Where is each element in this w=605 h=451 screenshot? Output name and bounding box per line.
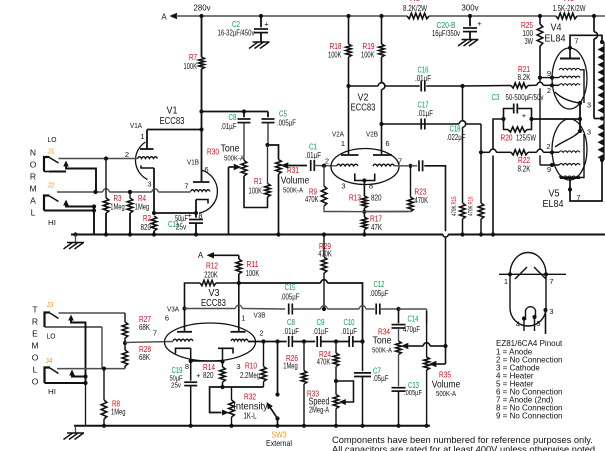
svg-text:.005µF: .005µF — [277, 119, 296, 128]
capacitor C11 — [168, 211, 203, 235]
svg-text:All capacitors are rated for a: All capacitors are rated for at least 40… — [332, 445, 598, 451]
svg-text:470K: 470K — [451, 205, 458, 216]
svg-text:2: 2 — [125, 150, 129, 159]
capacitor C8 tremolo — [283, 318, 299, 347]
svg-text:1: 1 — [504, 277, 508, 286]
wire V1 plate node — [199, 109, 203, 182]
capacitor C19 — [170, 361, 202, 426]
svg-text:8.2K: 8.2K — [518, 73, 531, 82]
svg-text:R6: R6 — [564, 0, 575, 3]
wire J3 tip — [59, 313, 126, 322]
svg-text:500K-A: 500K-A — [283, 188, 303, 195]
svg-text:.005µF: .005µF — [281, 293, 300, 302]
resistor R28 — [122, 343, 151, 369]
wire ground bus — [71, 235, 605, 238]
wire C16 coupling — [346, 83, 419, 88]
resistor R3 — [103, 156, 125, 234]
svg-text:+: + — [522, 111, 527, 120]
svg-text:500K-A: 500K-A — [436, 391, 456, 398]
resistor R22 — [511, 149, 559, 173]
capacitor C20-B — [432, 14, 482, 39]
svg-text:ECC83: ECC83 — [160, 115, 185, 127]
svg-text:+: + — [196, 371, 201, 380]
svg-text:470K: 470K — [468, 205, 475, 216]
svg-text:EL84: EL84 — [543, 198, 564, 210]
capacitor C17 — [417, 101, 433, 130]
capacitor C14 — [392, 309, 421, 341]
svg-text:9 = No Connection: 9 = No Connection — [496, 412, 563, 421]
capacitor C15 — [281, 283, 300, 315]
svg-text:125/5W: 125/5W — [516, 134, 536, 143]
capacitor C16 — [415, 66, 431, 92]
label 280v — [194, 4, 211, 13]
cathode V4 — [555, 70, 591, 110]
potentiometer R34 Tone — [372, 328, 446, 355]
svg-text:C8: C8 — [229, 113, 237, 122]
svg-text:3: 3 — [549, 307, 553, 316]
label NORMAL — [29, 148, 36, 218]
anode V4 pin 7 — [560, 35, 602, 58]
resistor R19 — [361, 16, 385, 124]
svg-text:7: 7 — [153, 329, 157, 338]
svg-text:A: A — [198, 251, 204, 260]
wire V3A plate — [185, 305, 286, 309]
svg-text:470K: 470K — [305, 195, 319, 204]
resistor R24 — [317, 342, 339, 384]
svg-text:25v: 25v — [176, 223, 187, 232]
svg-text:500K-A: 500K-A — [224, 156, 244, 163]
label J2 HI — [48, 181, 57, 228]
wire R18 R19 from rail — [346, 14, 383, 18]
capacitor C2 — [218, 14, 270, 42]
svg-text:3: 3 — [236, 362, 240, 371]
svg-text:8.2K: 8.2K — [518, 165, 531, 174]
svg-text:C12: C12 — [374, 280, 385, 289]
svg-text:LO: LO — [47, 332, 56, 341]
svg-text:.01µF: .01µF — [415, 74, 431, 83]
cathode V5 — [555, 128, 591, 148]
wire J3 sleeve — [45, 327, 103, 369]
jack J1 — [44, 157, 59, 172]
svg-text:R5: R5 — [410, 0, 421, 3]
wire V4 cathode to bias — [578, 103, 582, 131]
svg-text:R12: R12 — [206, 262, 218, 271]
wire C3 to ground — [493, 119, 504, 235]
capacitor C13 — [392, 355, 423, 426]
capacitor C5 — [262, 110, 297, 146]
wire C17 coupling — [379, 121, 481, 126]
svg-text:280v: 280v — [194, 4, 211, 13]
svg-text:R20: R20 — [501, 134, 513, 143]
resistor R10 — [240, 339, 266, 387]
svg-text:1: 1 — [341, 139, 345, 148]
svg-text:68K: 68K — [139, 323, 150, 332]
grids V5 — [546, 134, 584, 178]
triode V3A — [153, 305, 193, 364]
wire C3 to cathodes — [532, 118, 581, 120]
svg-text:6: 6 — [385, 139, 389, 148]
wire C15 to C12 — [292, 306, 374, 309]
switch contact J3 — [68, 315, 85, 384]
svg-text:2Meg-A: 2Meg-A — [309, 406, 329, 415]
svg-text:220K: 220K — [204, 271, 218, 280]
resistor R8 — [101, 369, 126, 426]
capacitor C3 — [492, 93, 544, 120]
ground for C20-B — [458, 40, 479, 47]
svg-text:.005µF: .005µF — [404, 388, 422, 397]
wire osc to plate feed — [353, 339, 365, 343]
resistor R9 — [305, 164, 340, 212]
label LO J1 — [48, 135, 57, 156]
triode V2A — [325, 86, 359, 166]
svg-text:C8: C8 — [287, 318, 295, 327]
grids V4 — [540, 68, 580, 95]
svg-text:.01µF: .01µF — [221, 122, 237, 131]
wire plate to caps — [202, 111, 269, 113]
svg-text:T: T — [32, 305, 37, 315]
switch contact J2 — [44, 200, 96, 235]
svg-text:N: N — [30, 148, 36, 158]
svg-text:ECC83: ECC83 — [351, 102, 376, 114]
wire V3B grid — [248, 339, 287, 343]
svg-text:1Meg: 1Meg — [111, 408, 126, 417]
svg-text:+: + — [264, 20, 269, 29]
svg-text:R13: R13 — [349, 194, 361, 203]
svg-text:L: L — [31, 208, 36, 218]
tube V3 envelope — [165, 323, 256, 361]
svg-text:100K: 100K — [361, 51, 375, 60]
svg-text:8: 8 — [185, 362, 189, 371]
tremolo bus dots — [102, 424, 429, 428]
svg-text:300v: 300v — [462, 4, 479, 13]
cathode V2 — [341, 174, 374, 191]
svg-text:O: O — [32, 377, 39, 387]
svg-text:1K-L: 1K-L — [244, 412, 257, 421]
svg-text:1Meg: 1Meg — [135, 203, 150, 212]
svg-text:R11: R11 — [247, 260, 259, 269]
svg-text:R7: R7 — [189, 53, 197, 62]
node A supply arrow — [161, 13, 201, 22]
wire V3B plate feed — [239, 280, 363, 342]
resistor R17 — [362, 212, 383, 235]
svg-text:R10: R10 — [245, 362, 257, 371]
svg-text:L: L — [33, 365, 38, 375]
resistor R29 — [318, 235, 332, 312]
wire B+ rail — [202, 15, 605, 17]
capacitor C7 — [354, 339, 389, 425]
wire C18 to tremolo volume — [424, 166, 445, 346]
svg-text:7: 7 — [574, 37, 578, 46]
resistor R11 — [236, 255, 260, 285]
svg-text:C14: C14 — [408, 315, 419, 324]
svg-text:7: 7 — [549, 277, 553, 286]
wire osc node2 — [321, 339, 349, 343]
svg-text:1Meg: 1Meg — [283, 362, 298, 371]
svg-text:16µF/350v: 16µF/350v — [432, 29, 460, 38]
wire cathode network — [223, 386, 264, 388]
ground for C2 — [249, 42, 270, 49]
svg-text:V2A: V2A — [332, 130, 344, 139]
svg-text:3W: 3W — [525, 37, 534, 46]
jack J2 — [44, 196, 59, 211]
wire J2 tip grid — [57, 189, 191, 194]
svg-text:J4: J4 — [46, 356, 53, 365]
wire J1 tip — [59, 158, 138, 160]
capacitor C1 — [305, 143, 337, 172]
wire B+ to center tap — [592, 14, 602, 119]
jack J3 — [45, 313, 59, 328]
svg-text:47K: 47K — [371, 223, 382, 232]
svg-text:3: 3 — [587, 101, 591, 110]
svg-text:R15: R15 — [451, 196, 458, 204]
node V2 tail — [340, 210, 408, 214]
svg-text:820: 820 — [371, 194, 382, 203]
svg-text:E: E — [32, 329, 38, 339]
tube V2 envelope — [331, 149, 399, 185]
svg-text:50-500µF/50v: 50-500µF/50v — [506, 93, 544, 102]
tube EZ81 pinout symbol — [499, 253, 566, 335]
wire C12 to tone — [380, 307, 427, 323]
node A feed tremolo — [198, 251, 239, 260]
svg-text:HI: HI — [48, 218, 56, 227]
svg-text:EL84: EL84 — [545, 33, 566, 45]
svg-text:.01µF: .01µF — [417, 109, 433, 118]
resistor R16 — [468, 124, 484, 235]
tube V3 label — [201, 287, 226, 309]
screen feed V5 — [540, 78, 559, 165]
svg-text:O: O — [32, 353, 39, 363]
switch contact J1 — [49, 161, 96, 193]
svg-text:2: 2 — [325, 157, 329, 166]
svg-text:25v: 25v — [171, 381, 181, 390]
resistor R18 — [328, 16, 351, 86]
resistor R12 — [182, 262, 238, 311]
svg-text:V1A: V1A — [130, 121, 142, 130]
tube V2 label — [351, 92, 376, 114]
resistor R13 — [349, 181, 382, 212]
resistor R20 — [501, 117, 537, 143]
svg-text:2.2Meg: 2.2Meg — [240, 371, 260, 380]
resistor R14 — [203, 361, 225, 389]
resistor R26 — [283, 342, 307, 426]
svg-text:C3: C3 — [492, 93, 500, 102]
svg-text:R2: R2 — [143, 214, 151, 223]
svg-text:+: + — [187, 211, 192, 220]
svg-text:16-32µF/450v: 16-32µF/450v — [218, 29, 255, 38]
svg-text:100K: 100K — [184, 62, 198, 71]
triode V1A — [125, 121, 158, 213]
svg-text:100K: 100K — [328, 51, 342, 60]
svg-text:External: External — [266, 439, 292, 448]
tube V5 label — [543, 188, 564, 211]
svg-text:500K-A: 500K-A — [372, 348, 392, 355]
svg-text:.01µF: .01µF — [313, 327, 329, 336]
svg-text:Tone: Tone — [221, 143, 240, 155]
svg-text:100K: 100K — [246, 269, 260, 278]
text component note — [332, 435, 598, 451]
svg-text:O: O — [30, 160, 37, 170]
wire J4 tip — [57, 367, 125, 371]
potentiometer R32 Intensity — [210, 387, 269, 426]
svg-text:.01µF: .01µF — [283, 327, 299, 336]
svg-text:R: R — [30, 172, 36, 182]
svg-text:J3: J3 — [47, 300, 54, 309]
wire tremolo grid — [125, 342, 173, 343]
capacitor C9 — [313, 318, 329, 347]
resistor R6 partial label — [564, 0, 575, 3]
svg-text:7: 7 — [398, 157, 402, 166]
ground symbol preamp bus — [64, 232, 85, 249]
svg-text:1.5K-2K/2W: 1.5K-2K/2W — [553, 4, 586, 13]
svg-text:2: 2 — [547, 86, 551, 95]
svg-text:.01µF: .01µF — [305, 151, 321, 160]
resistor 1.5K-2K/2W — [553, 4, 586, 19]
svg-text:LO: LO — [48, 135, 57, 144]
ground symbol tremolo — [64, 426, 85, 440]
jack J4 — [45, 368, 59, 384]
svg-text:.01µF: .01µF — [341, 327, 357, 336]
svg-text:68K: 68K — [139, 353, 150, 362]
tube V4 label — [545, 22, 566, 45]
svg-text:C15: C15 — [285, 283, 296, 292]
text EZ81 pinout list — [496, 339, 563, 421]
wire C16 to R21 — [426, 84, 511, 88]
svg-text:.005µF: .005µF — [370, 289, 389, 298]
svg-text:ECC83: ECC83 — [201, 297, 226, 309]
bus junction dots — [104, 232, 495, 236]
svg-text:V1B: V1B — [187, 158, 199, 167]
svg-text:J2: J2 — [48, 181, 55, 190]
svg-text:+: + — [477, 19, 482, 28]
svg-text:C10: C10 — [344, 318, 355, 327]
tube V1 label — [160, 105, 185, 128]
svg-text:V3A: V3A — [167, 305, 179, 314]
svg-text:HI: HI — [48, 387, 56, 396]
wire osc node1 — [292, 339, 315, 343]
switch contact J4 — [45, 370, 88, 426]
svg-text:8.2K/2W: 8.2K/2W — [403, 4, 427, 13]
svg-text:470pF: 470pF — [403, 325, 420, 334]
resistor R1 — [244, 145, 270, 208]
svg-text:M: M — [31, 341, 38, 351]
svg-text:.05µF: .05µF — [373, 374, 389, 383]
svg-text:Components have been numbered: Components have been numbered for refere… — [332, 435, 593, 445]
anode V5 pin 7 — [560, 160, 602, 202]
tube V5 envelope — [552, 119, 587, 180]
resistor R7 — [184, 16, 205, 112]
svg-text:V3B: V3B — [254, 311, 266, 320]
svg-text:Volume: Volume — [432, 379, 461, 391]
label J3 LO — [47, 300, 56, 341]
wire V1 cathode — [152, 211, 198, 215]
svg-text:1: 1 — [140, 132, 144, 141]
label TREMOLO — [31, 305, 38, 387]
node C5 R1 volume — [265, 143, 278, 160]
capacitor C12 — [370, 280, 389, 315]
resistor R15 — [451, 86, 466, 235]
svg-text:820: 820 — [203, 371, 214, 380]
potentiometer R31 Volume — [276, 160, 310, 235]
resistor R21 — [511, 65, 559, 88]
svg-text:470K: 470K — [317, 358, 331, 367]
capacitor C10 — [341, 318, 357, 347]
triode V1B — [184, 158, 217, 221]
capacitor C18 — [419, 125, 466, 172]
transformer primary winding — [598, 40, 605, 162]
svg-text:1Meg: 1Meg — [110, 203, 125, 212]
node 280v junction — [199, 14, 203, 18]
svg-text:3: 3 — [341, 182, 345, 191]
svg-text:R: R — [32, 317, 38, 327]
svg-text:A: A — [30, 196, 36, 206]
tube V4 envelope — [552, 48, 587, 109]
resistor R23 — [364, 166, 428, 212]
svg-text:2: 2 — [546, 142, 550, 151]
resistor R25 — [521, 14, 543, 80]
svg-text:3: 3 — [147, 180, 151, 189]
potentiometer R33 Speed — [307, 381, 354, 426]
capacitor C8 — [221, 109, 251, 160]
wire R22 grid — [481, 149, 511, 152]
svg-text:4: 4 — [516, 320, 520, 329]
label J4 HI — [46, 356, 57, 396]
svg-text:C9: C9 — [317, 318, 325, 327]
svg-text:R1: R1 — [254, 177, 262, 186]
svg-text:2: 2 — [259, 329, 263, 338]
svg-text:1: 1 — [241, 314, 245, 323]
svg-text:6: 6 — [165, 314, 169, 323]
triode V2B — [366, 124, 402, 166]
svg-text:A: A — [161, 13, 167, 22]
svg-text:J1: J1 — [48, 147, 55, 156]
svg-text:5: 5 — [536, 319, 540, 328]
svg-text:Tone: Tone — [373, 335, 392, 347]
wire V1A plate — [147, 129, 202, 131]
svg-text:V2B: V2B — [366, 130, 378, 139]
potentiometer R30 Tone — [207, 143, 247, 235]
label 300v — [462, 4, 479, 13]
svg-text:3: 3 — [587, 128, 591, 137]
resistor R27 — [122, 315, 151, 345]
resistor 8.2K/2W — [403, 4, 429, 19]
resistor R2 — [141, 214, 157, 235]
triode V3B — [218, 283, 266, 371]
svg-text:R30: R30 — [207, 148, 219, 157]
svg-text:M: M — [29, 184, 36, 194]
svg-text:7: 7 — [184, 182, 188, 191]
svg-text:8: 8 — [369, 182, 373, 191]
svg-text:Volume: Volume — [281, 175, 310, 187]
wire V2B grid — [395, 164, 418, 168]
svg-text:R16: R16 — [468, 196, 475, 204]
potentiometer R35 Volume — [424, 311, 461, 426]
svg-text:C5: C5 — [279, 110, 287, 119]
resistor R5 partial label — [410, 0, 421, 3]
wire tremolo ground bus — [74, 425, 430, 427]
svg-text:100K: 100K — [249, 187, 263, 196]
wire V3 cathodes — [185, 361, 223, 371]
resistor R4 — [127, 190, 149, 235]
svg-text:470K: 470K — [415, 196, 429, 205]
switch SW3 — [266, 342, 292, 449]
